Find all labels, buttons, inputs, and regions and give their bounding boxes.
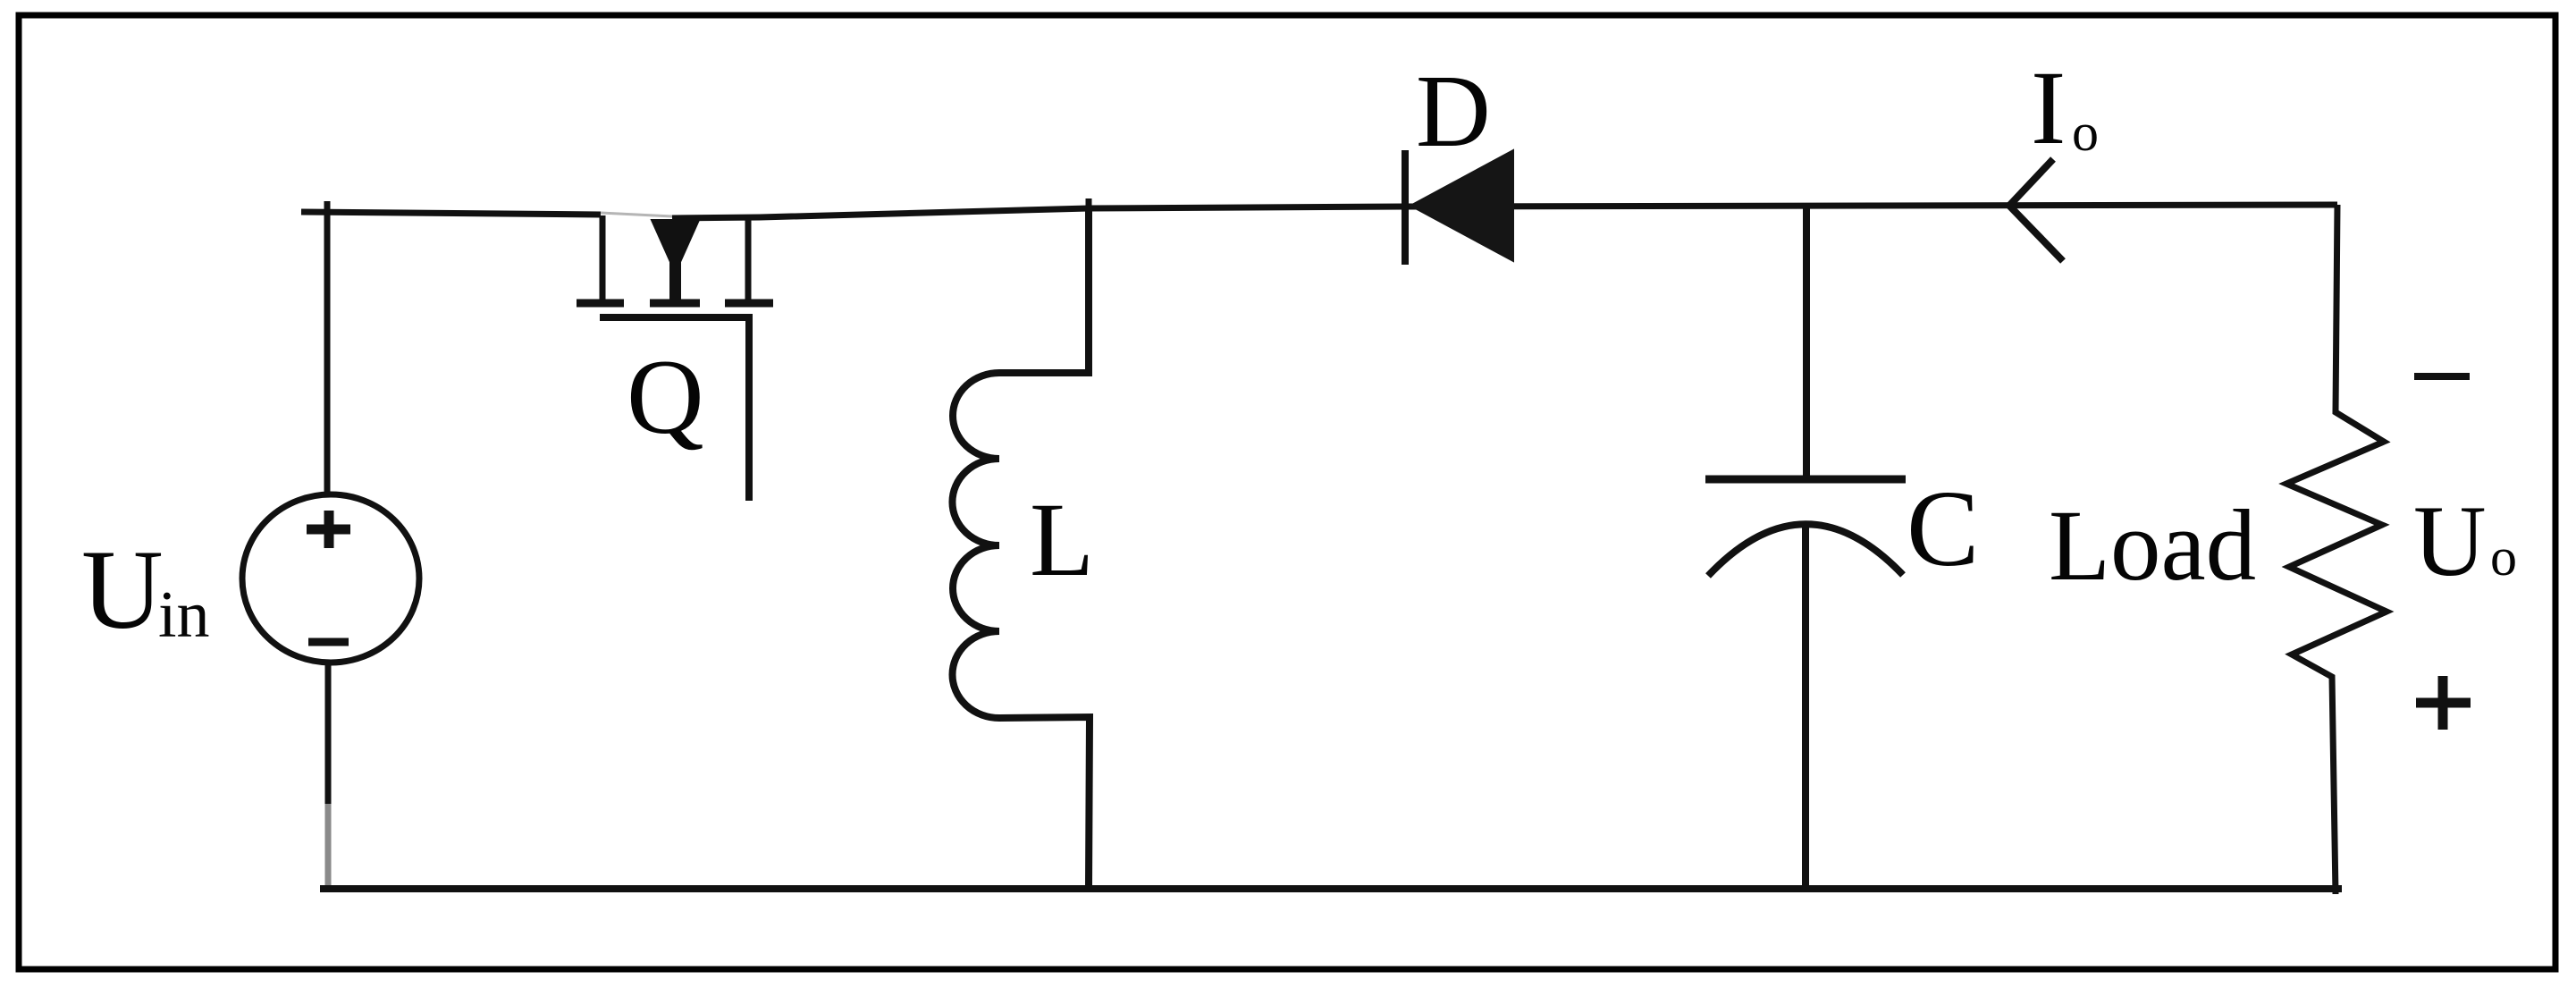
minus sign at resistor top [2414, 373, 2470, 380]
transistor Q (MOSFET) [577, 215, 773, 501]
source bar [725, 300, 773, 308]
wire source bottom lead [325, 665, 332, 804]
voltage source Uin circle [242, 494, 419, 663]
svg-text:U: U [2413, 486, 2487, 597]
svg-text:I: I [2031, 49, 2066, 166]
diode D cathode bar [1402, 150, 1409, 265]
current arrow Io [2009, 159, 2063, 261]
wire left vertical from top rail to source [324, 201, 331, 493]
svg-text:D: D [1416, 55, 1491, 169]
wire top rail right segment [672, 205, 2337, 218]
wire bottom rail [320, 885, 2342, 892]
source lead [745, 216, 752, 300]
capacitor C top lead [1803, 207, 1810, 477]
drain bar [577, 300, 624, 308]
resistor Load zigzag [2286, 205, 2387, 894]
plus sign at resistor bottom [2416, 676, 2471, 730]
wire gray lower segment [325, 804, 332, 886]
capacitor C bottom lead [1802, 526, 1809, 886]
svg-text:in: in [158, 578, 210, 652]
svg-text:o: o [2490, 528, 2517, 587]
plus sign inside source [307, 511, 350, 548]
svg-text:o: o [2072, 103, 2099, 162]
inductor L [952, 208, 1090, 886]
minus sign inside source [308, 638, 349, 646]
svg-text:U: U [81, 528, 164, 653]
drain lead [600, 215, 606, 300]
capacitor C flat plate [1705, 476, 1906, 484]
diode D triangle [1410, 150, 1513, 261]
node junction tick at inductor top [1086, 198, 1092, 215]
svg-text:Load: Load [2049, 490, 2256, 602]
body bar [650, 300, 700, 308]
svg-text:L: L [1030, 481, 1094, 598]
gate bar and gate lead [600, 317, 749, 501]
wire faint segment over transistor [601, 213, 672, 216]
wire top rail left segment [301, 212, 601, 215]
body arrow [652, 220, 699, 300]
capacitor C curved plate [1708, 524, 1903, 576]
svg-text:Q: Q [627, 337, 704, 456]
svg-text:C: C [1907, 469, 1979, 589]
